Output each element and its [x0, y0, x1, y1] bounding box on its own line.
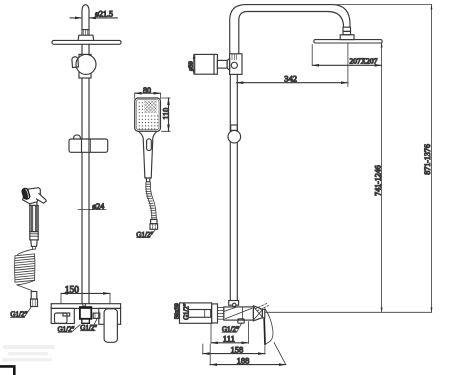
dimension 158 [203, 344, 265, 354]
connector nut above disc [78, 35, 94, 40]
dimension 110 (hand shower length) [161, 98, 170, 131]
slider ball [228, 130, 241, 143]
svg-text:110: 110 [161, 108, 170, 120]
svg-text:207X207: 207X207 [350, 57, 378, 66]
handle tail [146, 178, 150, 182]
column bottom holder [229, 301, 239, 306]
handle cone (side view) [253, 306, 262, 321]
svg-text:741-1246: 741-1246 [373, 165, 382, 196]
gooseneck band [343, 31, 351, 34]
svg-text:ø24: ø24 [92, 202, 104, 211]
ball joint circle [76, 54, 96, 74]
label G1/2 (side view) with leader [222, 324, 242, 334]
bottom extension line to wall [266, 311, 432, 313]
knob stem [217, 60, 227, 68]
dimension 150 [61, 285, 110, 303]
gooseneck pipe (side view) [230, 5, 350, 54]
coiled hose lead-in [18, 249, 34, 254]
hand shower head [135, 98, 161, 131]
handle mode button [147, 139, 152, 151]
dimension 207X207 [312, 45, 381, 66]
label G1/2 hose with leader [136, 230, 155, 239]
svg-text:ø21.5: ø21.5 [95, 9, 113, 18]
svg-text:59x59: 59x59 [174, 303, 181, 319]
spout notch [63, 313, 70, 316]
bidet sprayer nozzle tab [36, 194, 46, 204]
threaded nipple [218, 307, 224, 319]
svg-text:188: 188 [237, 355, 250, 365]
label G1/2 center with leader [80, 318, 97, 332]
faucet body bar (front view) [51, 304, 120, 309]
bidet sprayer head body [23, 188, 41, 204]
hand shower handle [139, 132, 157, 179]
svg-text:871-1376: 871-1376 [423, 144, 432, 175]
joint pivot circle [231, 62, 237, 68]
crosshatch spray patch [144, 101, 156, 113]
coiled spring hose [15, 254, 35, 282]
pipe below disc [82, 44, 89, 54]
top pipe of front view shower column [82, 5, 89, 35]
spout opening [55, 313, 68, 323]
hose outlet below body [238, 319, 244, 323]
dimension 80 (hand shower width) [135, 86, 161, 99]
dimension 188 [210, 343, 286, 366]
spray nozzle dots [139, 102, 159, 129]
valve body (side view) [224, 307, 254, 320]
bidet sprayer shaft with grip bars [30, 205, 38, 231]
stem cone [227, 59, 230, 71]
label G1/2 left with leader [58, 325, 80, 334]
overhead shower head plate (side view) [314, 40, 382, 43]
svg-text:111: 111 [223, 334, 235, 344]
dimension ø21.5 [70, 9, 118, 18]
dimension 111 [211, 322, 248, 344]
extension line top (871-1376) [332, 4, 432, 6]
lever pivot nut [262, 309, 264, 317]
label ø24 with leader [78, 202, 106, 211]
lever blade outline [265, 309, 273, 345]
bidet sprayer lower connector [30, 232, 38, 250]
column joint block [230, 54, 242, 75]
svg-text:G1/2″: G1/2″ [184, 303, 191, 320]
bidet sprayer head cap (dark) [21, 187, 31, 200]
center riser block (thick) [80, 307, 91, 319]
column pipe lower segment (front view) [82, 152, 89, 303]
slider collar [231, 125, 238, 130]
wall supply inner pipe [188, 310, 211, 318]
coil end connector [31, 292, 38, 307]
dimension 342 [236, 43, 348, 87]
bidet sprayer neck [30, 202, 37, 206]
coiled hose lead-out [17, 281, 35, 291]
pipe clamp above center block [83, 304, 86, 306]
diverter tab handle [72, 57, 79, 68]
dimension 741-1246 vertical [373, 43, 382, 313]
hand shower hose (ribbed) [145, 182, 156, 219]
hose end nut [150, 220, 158, 230]
column pipe upper segment (front view) [82, 78, 89, 139]
faint scan smudges [2, 345, 55, 361]
photo frame corner bottom-left [0, 366, 14, 375]
wall supply box (side view) [180, 303, 212, 323]
gooseneck sleeve [343, 27, 351, 31]
lever alternate position (dashed) [255, 303, 268, 311]
hand shower face inner line [136, 100, 159, 130]
dimension ø59 [187, 54, 194, 74]
valve backplate right [99, 308, 121, 324]
shower head disc (front view) [52, 40, 121, 44]
hose outlet connector (front view) [93, 313, 100, 318]
holder screw circle [233, 303, 236, 306]
lever blade dark [263, 319, 266, 345]
svg-text:158: 158 [231, 344, 244, 354]
column pipe below joint (side view) [230, 74, 237, 300]
ball joint slab [79, 54, 91, 78]
hand shower holder on column [69, 135, 108, 152]
dimension 871-1376 vertical [423, 5, 432, 313]
svg-text:ø59: ø59 [187, 61, 194, 71]
svg-text:342: 342 [284, 74, 297, 84]
head connector nut [340, 35, 354, 40]
faucet left spout block [51, 308, 74, 323]
lever handle (front view) [104, 309, 117, 343]
label G1/2 bidet with leader [10, 307, 31, 319]
diverter knob ø59 (side view) [195, 54, 218, 74]
center block lower connector [82, 319, 90, 324]
mounting plate (side view) [212, 304, 218, 323]
